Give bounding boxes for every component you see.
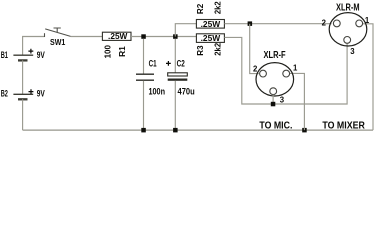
battery B1 plus sign — [28, 49, 33, 54]
wire switch to R1 — [71, 36, 103, 38]
wire R2 output to XLR-M pin2 — [224, 23, 331, 25]
svg-text:TO MIC.: TO MIC. — [259, 121, 292, 132]
svg-text:C1: C1 — [149, 59, 157, 69]
capacitor C1 plates — [136, 74, 154, 80]
svg-text:.25W: .25W — [201, 20, 221, 29]
battery B1 negative plate — [18, 59, 28, 61]
wire battery column to switch — [23, 37, 45, 56]
svg-text:C2: C2 — [177, 59, 185, 69]
svg-text:3: 3 — [280, 95, 285, 104]
XLR-F pin 2 — [260, 70, 267, 77]
svg-text:SW1: SW1 — [50, 37, 66, 47]
ground rail — [23, 129, 373, 131]
svg-text:XLR-F: XLR-F — [264, 50, 286, 61]
svg-text:R1: R1 — [117, 46, 127, 57]
svg-text:.25W: .25W — [201, 34, 221, 43]
svg-text:.25W: .25W — [108, 32, 128, 41]
capacitor C2 top lead — [174, 39, 176, 73]
XLR-F connector shell — [256, 63, 294, 96]
svg-text:B2: B2 — [1, 89, 8, 99]
svg-text:2k2: 2k2 — [213, 1, 223, 14]
node junction C1 tap — [141, 34, 146, 39]
wire B2 down to ground rail — [22, 99, 24, 130]
XLR-F pin 3 — [270, 88, 277, 95]
node junction riser tap — [173, 34, 178, 39]
svg-text:470u: 470u — [178, 87, 195, 97]
svg-text:2: 2 — [322, 18, 327, 27]
svg-text:2k2: 2k2 — [213, 43, 223, 56]
switch SW1 actuator T mark — [54, 28, 61, 32]
svg-text:B1: B1 — [1, 50, 8, 60]
wire R3 output to pin3 line and XLR-M pin3 — [224, 37, 347, 104]
svg-text:R2: R2 — [195, 3, 205, 14]
svg-text:R3: R3 — [195, 45, 205, 56]
switch SW1 lever — [45, 29, 70, 37]
capacitor C2 negative plate bar — [168, 79, 188, 81]
wire XLR-M pin1 to ground rail right edge — [361, 24, 373, 130]
resistor R2 box — [196, 20, 224, 29]
capacitor C2 polarity plus — [166, 61, 171, 66]
node junction R2 output — [248, 21, 253, 26]
battery B2 negative plate — [18, 98, 28, 100]
resistor R1 box — [102, 32, 131, 40]
wire junction down to XLR-F pin2 — [250, 24, 259, 74]
XLR-M pin 3 — [344, 37, 351, 44]
capacitor C1 top lead — [143, 39, 145, 74]
svg-text:9V: 9V — [37, 89, 45, 99]
svg-text:3: 3 — [350, 47, 355, 56]
XLR-F pin 3 stub — [272, 95, 274, 104]
svg-text:1: 1 — [293, 64, 298, 73]
capacitor C1 bottom lead — [143, 81, 145, 130]
XLR-M connector shell — [329, 13, 367, 46]
wire R1 to R3 through junctions — [131, 36, 196, 38]
XLR-M pin 1 — [356, 20, 363, 27]
svg-text:9V: 9V — [37, 50, 45, 60]
svg-text:100n: 100n — [149, 87, 166, 97]
switch SW1 contact tick — [44, 33, 46, 37]
node XLR-F pin3 junction — [271, 102, 276, 107]
XLR-F pin 1 — [283, 70, 290, 77]
svg-text:TO MIXER: TO MIXER — [322, 121, 365, 132]
battery B2 plus sign — [29, 89, 34, 94]
XLR-M pin 2 — [333, 20, 340, 27]
node rail C1 — [141, 128, 146, 132]
resistor R3 box — [196, 34, 224, 43]
wire B1 to B2 — [22, 60, 24, 94]
battery B2 positive plate — [13, 93, 33, 95]
svg-text:2: 2 — [253, 64, 258, 73]
svg-text:100: 100 — [102, 45, 112, 59]
capacitor C2 bottom lead — [174, 81, 176, 130]
svg-text:1: 1 — [365, 16, 370, 25]
node rail XLR-F pin1 ground — [302, 128, 307, 132]
wire XLR-F pin1 to ground rail — [290, 73, 305, 130]
node rail C2 — [173, 128, 178, 132]
svg-text:XLR-M: XLR-M — [336, 2, 360, 13]
wire riser to R2 row — [175, 24, 196, 37]
battery B1 positive plate — [13, 54, 33, 56]
capacitor C2 positive plate box — [168, 73, 188, 76]
